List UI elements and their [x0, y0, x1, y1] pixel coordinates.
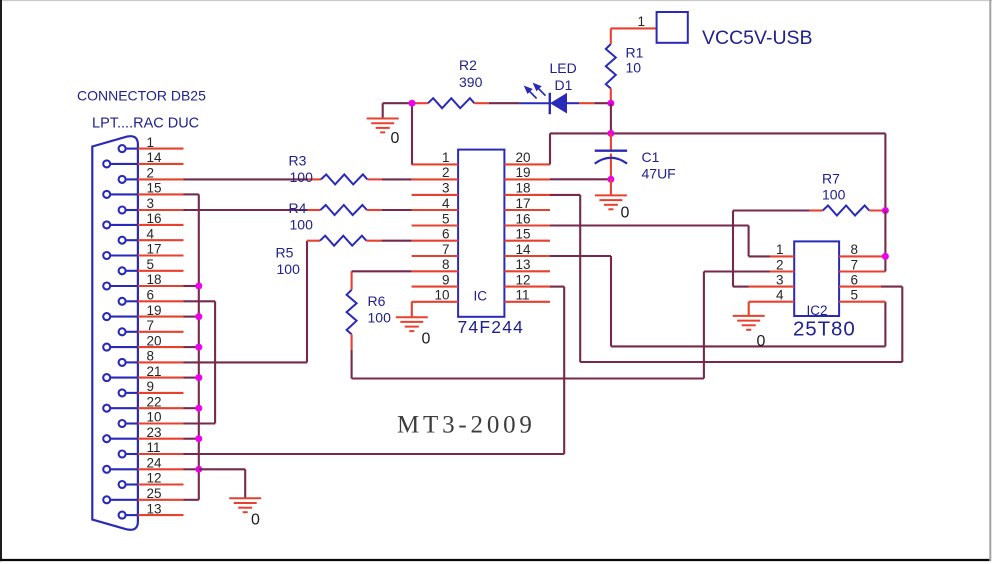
ground 0 label below C1 — [621, 204, 630, 221]
wire R5 to IC pin6 — [366, 240, 411, 242]
wire R3 to IC pin2 — [367, 178, 411, 180]
IC2 pin 5 stub wire and number — [839, 288, 885, 303]
svg-text:11: 11 — [147, 440, 161, 455]
svg-text:10: 10 — [626, 60, 642, 76]
svg-text:3: 3 — [776, 272, 784, 287]
capacitor C1 — [595, 151, 627, 180]
connector pin 2 (circle, stub wire, pin number) — [119, 166, 184, 183]
svg-text:11: 11 — [516, 288, 530, 303]
IC U1 pin 1 stub wire and number — [412, 150, 459, 165]
svg-text:3: 3 — [442, 181, 450, 196]
ground symbol below C1 — [595, 179, 627, 209]
connector pin 1 (circle, stub wire, pin number) — [119, 135, 184, 152]
connector pin 20 (circle, stub wire, pin number) — [103, 333, 183, 350]
svg-text:100: 100 — [290, 217, 314, 233]
R1 label — [626, 45, 644, 76]
svg-text:47UF: 47UF — [642, 166, 676, 182]
svg-text:10: 10 — [434, 288, 449, 303]
svg-text:0: 0 — [422, 331, 431, 348]
wire IC pin19 to C1 bottom — [550, 178, 611, 180]
connector pin 16 (circle, stub wire, pin number) — [103, 211, 183, 228]
svg-text:3: 3 — [147, 196, 155, 211]
wire junction down to IC pin1 — [411, 103, 413, 164]
R2 label — [459, 57, 483, 90]
connector pin 7 (circle, stub wire, pin number) — [119, 318, 184, 335]
resistor R4 — [321, 205, 367, 215]
svg-text:7: 7 — [147, 318, 155, 333]
ground symbol near DB25 — [229, 498, 261, 512]
svg-text:R6: R6 — [368, 293, 386, 309]
IC2 internal label — [807, 303, 828, 318]
connector pin 14 (circle, stub wire, pin number) — [103, 150, 183, 167]
IC U1 pin 9 stub wire and number — [412, 272, 459, 287]
svg-text:R5: R5 — [276, 245, 294, 261]
wire rail to C1 — [610, 133, 612, 150]
svg-text:MT3-2009: MT3-2009 — [397, 412, 536, 439]
wire VCC rail to IC2 pin8/7 — [884, 211, 886, 272]
wire net DB25 pin8 up to R5 — [184, 241, 321, 363]
svg-text:9: 9 — [442, 272, 450, 287]
wire net IC pin12 to DB25 pin11 — [184, 287, 565, 454]
IC U1 pin 7 stub wire and number — [412, 242, 459, 257]
svg-text:74F244: 74F244 — [458, 317, 525, 337]
connector pin 22 (circle, stub wire, pin number) — [103, 394, 183, 411]
svg-text:14: 14 — [516, 242, 532, 257]
junction dot below R1 — [607, 100, 614, 107]
wire R1 to VCC pad — [611, 28, 657, 103]
IC U1 pin 14 stub wire and number — [504, 242, 550, 257]
VCC5V-USB label — [702, 27, 813, 49]
R5 label — [276, 245, 301, 278]
svg-text:14: 14 — [147, 150, 163, 165]
wire IC2 pin1 link — [749, 255, 770, 257]
wire IC2 pin3 to R7 left — [733, 211, 810, 287]
R6 label — [368, 293, 392, 326]
svg-text:100: 100 — [277, 261, 301, 277]
wire R6 bottom net to IC2 pin2 — [352, 272, 704, 379]
svg-text:5: 5 — [442, 211, 450, 226]
svg-text:8: 8 — [442, 257, 450, 272]
svg-text:4: 4 — [147, 226, 155, 241]
connector pin 13 (circle, stub wire, pin number) — [119, 501, 184, 518]
connector pin 4 (circle, stub wire, pin number) — [119, 226, 184, 243]
ground symbol IC pin10 — [396, 302, 428, 331]
svg-text:22: 22 — [147, 394, 162, 409]
svg-text:0: 0 — [251, 512, 260, 529]
svg-text:7: 7 — [851, 257, 859, 272]
connector pin 15 (circle, stub wire, pin number) — [103, 181, 183, 198]
svg-text:1: 1 — [147, 135, 155, 150]
R3 label — [289, 153, 314, 186]
svg-text:15: 15 — [516, 227, 531, 242]
IC2 pin 1 stub wire and number — [770, 242, 794, 257]
IC U1 pin 4 stub wire and number — [412, 196, 459, 211]
svg-text:R1: R1 — [626, 45, 644, 61]
resistor R1 — [606, 44, 616, 89]
svg-text:13: 13 — [516, 257, 531, 272]
connector pin 19 (circle, stub wire, pin number) — [103, 303, 183, 320]
IC U1 pin 15 stub wire and number — [504, 227, 550, 242]
connector name text LPT....RAC DUC — [92, 116, 199, 132]
IC U1 pin 16 stub wire and number — [504, 211, 550, 226]
svg-text:12: 12 — [147, 471, 162, 486]
svg-text:19: 19 — [147, 303, 162, 318]
resistor R7 — [823, 206, 869, 216]
connector title text CONNECTOR DB25 — [77, 88, 206, 104]
ground 0 label left of R2 — [391, 130, 400, 147]
svg-text:100: 100 — [822, 187, 846, 203]
connector pin 12 (circle, stub wire, pin number) — [119, 471, 184, 488]
wire LED to junction — [579, 102, 611, 104]
wire IC2 pin2 link — [704, 270, 770, 272]
wire ground bus net (DB25 pins 15,18-25) — [184, 194, 199, 499]
IC U1 pin 12 stub wire and number — [504, 272, 550, 287]
svg-text:R2: R2 — [459, 57, 477, 73]
svg-text:17: 17 — [516, 196, 531, 211]
connector pin 3 (circle, stub wire, pin number) — [119, 196, 184, 213]
svg-text:4: 4 — [776, 288, 784, 303]
IC2 pin 3 stub wire and number — [770, 272, 794, 287]
IC IC2 25T80 body — [794, 241, 839, 316]
svg-text:15: 15 — [147, 181, 162, 196]
title text MT3-2009 — [397, 412, 536, 439]
IC U1 pin 2 stub wire and number — [412, 165, 459, 180]
R4 label — [289, 200, 314, 233]
svg-text:IC: IC — [474, 289, 488, 304]
svg-text:8: 8 — [147, 349, 155, 364]
svg-text:5: 5 — [851, 288, 859, 303]
resistor R2 — [428, 98, 474, 108]
svg-text:C1: C1 — [642, 149, 660, 165]
svg-text:6: 6 — [442, 227, 450, 242]
IC U1 pin 17 stub wire and number — [504, 196, 550, 211]
connector pin 8 (circle, stub wire, pin number) — [119, 349, 184, 366]
junction dot C1 bottom — [607, 176, 614, 183]
svg-text:16: 16 — [147, 211, 162, 226]
svg-text:R3: R3 — [289, 153, 307, 169]
wire IC2 pin6 link — [881, 286, 902, 288]
wire VCC rail (pin20 riser to R7 branch) — [550, 133, 885, 210]
wire junction to R2 — [412, 102, 428, 104]
wire R2 to LED — [474, 102, 519, 104]
resistor R5 — [320, 236, 366, 246]
svg-text:23: 23 — [147, 425, 162, 440]
IC U1 pin 10 stub wire and number — [412, 288, 459, 303]
connector pin 25 (circle, stub wire, pin number) — [103, 486, 183, 503]
svg-text:0: 0 — [757, 333, 766, 350]
wire net IC pin16 to IC2 pin1 — [550, 226, 749, 257]
IC2 pin 4 stub wire and number — [770, 288, 794, 303]
wire R6 top to IC pin8 — [352, 271, 412, 290]
svg-text:LPT....RAC DUC: LPT....RAC DUC — [92, 116, 199, 132]
LED D1 symbol — [519, 84, 579, 114]
svg-text:20: 20 — [516, 150, 531, 165]
junction dot IC2 pin8 — [882, 253, 889, 260]
svg-text:IC2: IC2 — [807, 303, 828, 318]
svg-text:8: 8 — [851, 242, 859, 257]
ground 0 label IC pin10 — [422, 331, 431, 348]
wire to R7 — [810, 209, 823, 211]
IC U1 pin 8 stub wire and number — [412, 257, 459, 272]
svg-text:24: 24 — [147, 456, 163, 471]
junction dots on ground bus — [195, 283, 202, 473]
svg-text:R4: R4 — [289, 200, 307, 216]
IC2 value label 25T80 — [793, 318, 856, 341]
ground 0 label IC2 — [757, 333, 766, 350]
IC U1 pin 6 stub wire and number — [412, 227, 459, 242]
IC U1 pin 5 stub wire and number — [412, 211, 459, 226]
IC U1 pin 11 stub wire and number — [504, 288, 550, 303]
svg-text:390: 390 — [459, 74, 483, 90]
svg-text:100: 100 — [368, 310, 392, 326]
svg-text:2: 2 — [442, 165, 450, 180]
wire R7 right to junction — [869, 209, 885, 211]
connector pin 11 (circle, stub wire, pin number) — [119, 440, 184, 457]
IC U1 74F244 body — [458, 150, 504, 317]
svg-text:13: 13 — [147, 501, 162, 516]
IC U1 value label 74F244 — [458, 317, 525, 337]
svg-text:18: 18 — [147, 272, 162, 287]
wire net IC pin14 to IC2 pin5 — [550, 256, 885, 346]
IC2 pin 6 stub wire and number — [839, 272, 881, 287]
IC2 pin 8 stub wire and number — [839, 242, 885, 257]
svg-text:21: 21 — [147, 364, 162, 379]
svg-text:1: 1 — [638, 14, 646, 29]
svg-text:100: 100 — [290, 169, 314, 185]
junction dot left of R2 — [409, 100, 416, 107]
connector pin 17 (circle, stub wire, pin number) — [103, 242, 183, 259]
svg-text:0: 0 — [621, 204, 630, 221]
svg-text:19: 19 — [516, 165, 531, 180]
junction dot R7 — [882, 207, 889, 214]
wire from bus to ground — [199, 469, 245, 498]
IC U1 internal label IC — [474, 289, 488, 304]
ground symbol left of R2 — [367, 119, 399, 133]
VCC pad pin number 1 — [638, 14, 646, 29]
svg-text:6: 6 — [851, 272, 859, 287]
svg-text:R7: R7 — [822, 171, 840, 187]
wire net DB25 pin2 to R3 — [184, 178, 322, 180]
connector pin 21 (circle, stub wire, pin number) — [103, 364, 183, 381]
IC U1 pin 13 stub wire and number — [504, 257, 550, 272]
wire IC2 pin4 to ground — [749, 301, 770, 303]
junction dot VCC rail — [607, 130, 614, 137]
svg-text:1: 1 — [776, 242, 784, 257]
C1 label — [642, 149, 676, 182]
ground 0 label near DB25 — [251, 512, 260, 529]
VCC5V-USB pad square — [657, 12, 688, 43]
IC U1 pin 20 stub wire and number — [504, 150, 550, 165]
resistor R3 — [321, 174, 367, 184]
svg-text:17: 17 — [147, 242, 162, 257]
svg-text:25T80: 25T80 — [793, 318, 856, 341]
wire R4 to IC pin4 — [367, 209, 412, 211]
svg-text:2: 2 — [147, 166, 155, 181]
svg-text:0: 0 — [391, 130, 400, 147]
IC2 pin 7 stub wire and number — [839, 257, 885, 272]
svg-text:LED: LED — [550, 60, 577, 76]
IC U1 pin 19 stub wire and number — [504, 165, 550, 180]
IC2 pin 2 stub wire and number — [770, 257, 794, 272]
svg-text:16: 16 — [516, 211, 531, 226]
wire net DB25 pin3 to R4 — [184, 209, 321, 211]
svg-text:25: 25 — [147, 486, 162, 501]
svg-text:10: 10 — [147, 410, 162, 425]
connector pin 9 (circle, stub wire, pin number) — [119, 379, 184, 396]
wire net IC pin18 to IC2 pin6 — [550, 195, 902, 362]
connector pin 24 (circle, stub wire, pin number) — [103, 456, 183, 473]
svg-text:4: 4 — [442, 196, 450, 211]
svg-text:1: 1 — [442, 150, 450, 165]
wire junction down to VCC rail — [610, 103, 612, 133]
connector J1 DB25 outline — [92, 136, 138, 530]
wire net DB25 pin6 to pin10 — [184, 301, 216, 423]
svg-text:D1: D1 — [555, 77, 573, 93]
svg-text:7: 7 — [442, 242, 450, 257]
IC U1 pin 3 stub wire and number — [412, 181, 459, 196]
connector pin 10 (circle, stub wire, pin number) — [119, 410, 184, 427]
connector pin 5 (circle, stub wire, pin number) — [119, 257, 184, 274]
svg-text:5: 5 — [147, 257, 155, 272]
svg-text:2: 2 — [776, 257, 784, 272]
svg-text:CONNECTOR DB25: CONNECTOR DB25 — [77, 88, 206, 104]
svg-text:VCC5V-USB: VCC5V-USB — [702, 27, 813, 49]
svg-text:18: 18 — [516, 181, 531, 196]
R7 label — [822, 171, 846, 203]
connector pin 6 (circle, stub wire, pin number) — [119, 288, 184, 305]
svg-text:12: 12 — [516, 272, 531, 287]
connector pin 23 (circle, stub wire, pin number) — [103, 425, 183, 442]
connector pin 18 (circle, stub wire, pin number) — [103, 272, 183, 289]
svg-text:6: 6 — [147, 288, 155, 303]
LED label — [550, 60, 577, 93]
svg-text:9: 9 — [147, 379, 155, 394]
ground symbol IC2 pin4 — [733, 302, 765, 330]
IC U1 pin 18 stub wire and number — [504, 181, 550, 196]
resistor R6 — [347, 290, 357, 335]
svg-text:20: 20 — [147, 333, 162, 348]
wire junction to ground (left of R2) — [383, 103, 412, 118]
